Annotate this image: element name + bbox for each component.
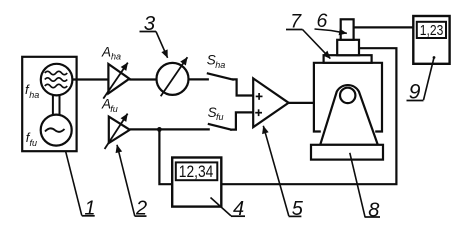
- svg-text:12,34: 12,34: [179, 162, 214, 181]
- svg-text:fu: fu: [216, 112, 224, 122]
- svg-text:fu: fu: [110, 104, 118, 114]
- svg-text:A: A: [101, 44, 111, 59]
- svg-text:ha: ha: [215, 60, 225, 70]
- svg-text:1,23: 1,23: [420, 22, 444, 39]
- svg-text:fu: fu: [30, 138, 38, 148]
- svg-text:ha: ha: [111, 51, 121, 61]
- svg-text:ha: ha: [29, 90, 39, 100]
- svg-text:8: 8: [368, 199, 379, 221]
